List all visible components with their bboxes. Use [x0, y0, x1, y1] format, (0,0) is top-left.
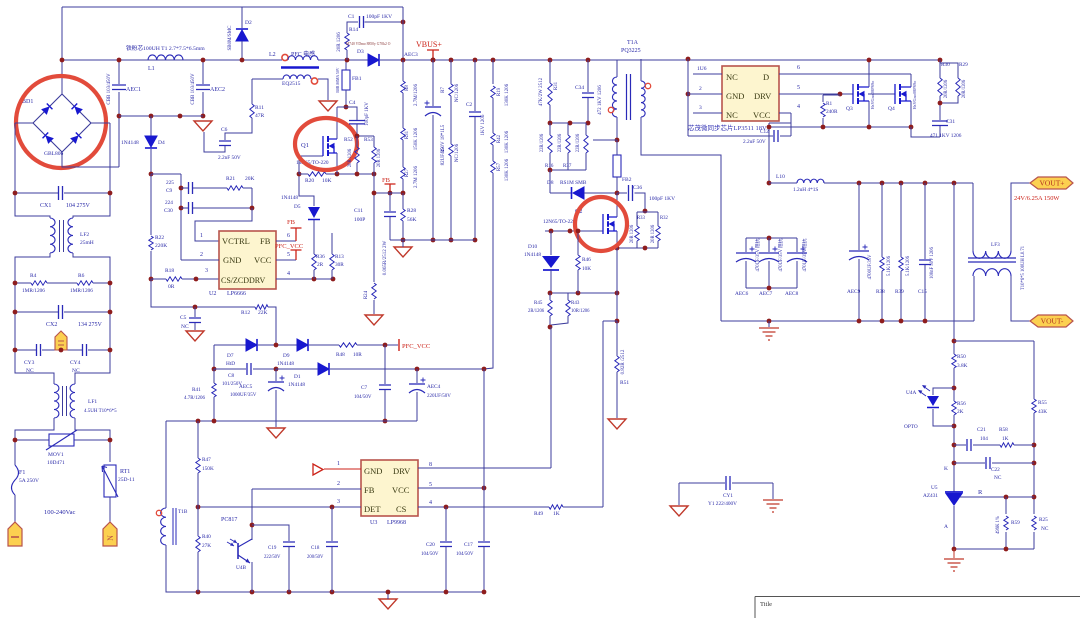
junction	[1032, 461, 1037, 466]
wire	[657, 241, 659, 243]
wire	[402, 221, 404, 240]
svg-text:20R 1206: 20R 1206	[337, 32, 342, 52]
junction	[923, 319, 928, 324]
capacitor C9	[189, 182, 193, 194]
junction	[482, 367, 487, 372]
svg-text:FB: FB	[287, 219, 296, 226]
resistor R13	[330, 254, 334, 270]
wire	[373, 174, 375, 282]
junction	[13, 438, 18, 443]
svg-text:LF3: LF3	[991, 242, 1000, 248]
svg-text:R42: R42	[497, 134, 502, 143]
junction	[383, 419, 388, 424]
svg-text:C21: C21	[977, 427, 986, 433]
wire	[1011, 183, 1030, 251]
diode D2	[236, 30, 248, 41]
capacitor C8	[247, 363, 251, 375]
junction	[372, 172, 377, 177]
svg-text:3.8K: 3.8K	[957, 363, 968, 369]
junction	[117, 58, 122, 63]
resistor R51	[615, 356, 619, 372]
svg-text:130K 1206: 130K 1206	[505, 83, 510, 106]
wire	[616, 374, 618, 418]
junction	[576, 291, 581, 296]
wire	[549, 60, 551, 75]
wire	[585, 156, 587, 170]
wire	[616, 321, 618, 352]
svg-text:2: 2	[699, 86, 702, 92]
svg-text:R55: R55	[1038, 400, 1047, 406]
varistor MOV1	[49, 434, 74, 446]
wire	[584, 192, 617, 194]
svg-text:1KV 1206: 1KV 1206	[481, 114, 486, 135]
svg-text:R13: R13	[335, 254, 344, 260]
svg-text:1MR/1206: 1MR/1206	[22, 288, 45, 294]
wire	[550, 269, 552, 293]
wire	[202, 60, 204, 84]
svg-text:C4: C4	[349, 100, 356, 106]
inductor LF3 core	[968, 258, 1016, 262]
wire	[550, 231, 552, 255]
junction	[909, 125, 914, 130]
wire	[275, 390, 277, 427]
wire	[550, 327, 552, 468]
junction	[383, 343, 388, 348]
wire output ground row	[721, 320, 974, 322]
svg-text:2.7M/1206: 2.7M/1206	[414, 83, 419, 106]
wire	[309, 344, 339, 346]
wire	[288, 547, 290, 592]
wire	[563, 506, 603, 508]
capacitor CY4	[83, 344, 87, 356]
svg-text:499K 1%: 499K 1%	[996, 516, 1001, 534]
junction	[386, 590, 391, 595]
wire	[197, 552, 199, 554]
wire gate Q2	[545, 230, 603, 232]
junction	[549, 229, 554, 234]
junction	[431, 238, 436, 243]
svg-text:2: 2	[337, 481, 340, 487]
svg-text:LF1: LF1	[88, 399, 97, 405]
wire	[252, 525, 289, 541]
svg-text:470UF/35V 阻抗: 470UF/35V 阻抗	[801, 238, 808, 271]
svg-text:R43: R43	[571, 301, 580, 306]
svg-text:R53: R53	[364, 137, 373, 143]
svg-text:104: 104	[980, 436, 988, 442]
wire	[61, 7, 63, 94]
svg-text:25D-11: 25D-11	[118, 477, 135, 483]
wire	[550, 292, 617, 294]
junction	[345, 58, 350, 63]
svg-text:R45: R45	[534, 301, 543, 306]
junction	[331, 277, 336, 282]
svg-text:22R/1206: 22R/1206	[540, 133, 545, 152]
capacitor CX1	[59, 186, 63, 200]
wire	[299, 174, 314, 206]
svg-text:VOUT-: VOUT-	[1041, 317, 1064, 326]
wire	[416, 392, 418, 421]
svg-text:R58: R58	[999, 427, 1008, 433]
capacitor C34	[582, 93, 594, 98]
svg-text:104/50V: 104/50V	[354, 395, 372, 400]
svg-text:R24: R24	[364, 290, 369, 299]
wire	[953, 415, 955, 417]
junction	[444, 590, 449, 595]
wire	[973, 276, 975, 321]
svg-text:C2: C2	[466, 102, 473, 108]
svg-text:1N4148: 1N4148	[121, 140, 139, 146]
wire source Q4	[910, 101, 912, 127]
svg-text:Q1: Q1	[301, 142, 309, 149]
wire primary ground row	[166, 545, 484, 592]
junction	[548, 121, 553, 126]
svg-text:134 275V: 134 275V	[78, 322, 103, 328]
wire pin 6 U2	[276, 240, 296, 242]
svg-text:R14: R14	[349, 27, 358, 33]
svg-text:PFC 电感: PFC 电感	[291, 50, 315, 58]
junction	[13, 191, 18, 196]
junction	[952, 181, 957, 186]
wire left rail	[15, 123, 50, 218]
capacitor C20	[440, 542, 452, 547]
junction	[643, 209, 648, 214]
wire	[551, 318, 568, 325]
wire	[960, 496, 1034, 498]
svg-text:R30: R30	[941, 62, 950, 68]
svg-text:GND: GND	[223, 255, 241, 265]
svg-text:AEC2: AEC2	[210, 87, 225, 93]
wire	[593, 139, 617, 141]
svg-text:20R/1206: 20R/1206	[944, 79, 949, 98]
svg-text:R29: R29	[959, 62, 968, 68]
junction	[274, 367, 279, 372]
svg-text:R12: R12	[241, 310, 250, 316]
svg-text:PFC_VCC: PFC_VCC	[275, 243, 303, 250]
svg-text:10D471: 10D471	[47, 460, 65, 466]
junction	[330, 505, 335, 510]
ferrite bead FB2	[613, 155, 621, 177]
svg-text:200/50V: 200/50V	[307, 555, 324, 560]
wire	[492, 98, 494, 133]
capacitor AEC8	[787, 252, 807, 254]
junction	[548, 58, 553, 63]
svg-text:R47: R47	[202, 457, 211, 463]
junction	[473, 58, 478, 63]
wire	[567, 293, 569, 296]
wire	[679, 482, 725, 484]
wire	[939, 99, 941, 120]
wire	[204, 132, 225, 152]
svg-text:1: 1	[200, 233, 203, 239]
junction	[857, 181, 862, 186]
svg-text:C20: C20	[426, 542, 435, 548]
wire	[796, 261, 798, 288]
wire	[1005, 497, 1007, 514]
svg-text:2K: 2K	[957, 409, 964, 415]
svg-text:AEC6: AEC6	[735, 291, 749, 297]
op-amp U2 LP6666	[219, 231, 276, 289]
transformer T1A core	[627, 74, 631, 120]
svg-text:R31: R31	[405, 130, 410, 139]
wire	[939, 75, 941, 78]
svg-text:PFC_VCC: PFC_VCC	[402, 343, 430, 350]
svg-text:47K/2W 2512: 47K/2W 2512	[539, 77, 544, 106]
wire pin 2 U3	[252, 488, 361, 490]
svg-text:OPTO: OPTO	[904, 424, 918, 430]
svg-text:VCTRL: VCTRL	[222, 236, 250, 246]
resistor R55	[1032, 399, 1036, 413]
diode D1	[318, 363, 329, 375]
wire	[450, 96, 452, 144]
wire	[881, 271, 883, 275]
wire	[450, 156, 452, 240]
wire pin 4 U2	[276, 278, 333, 280]
capacitor C22	[986, 457, 990, 469]
wire	[251, 118, 253, 124]
title block	[755, 597, 1080, 619]
wire	[299, 173, 308, 175]
wire	[197, 473, 199, 477]
junction	[431, 58, 436, 63]
wire	[402, 193, 404, 209]
resistor R36	[312, 254, 316, 270]
wire	[768, 238, 770, 252]
svg-text:L10: L10	[776, 174, 785, 180]
wire	[373, 142, 375, 147]
resistor R29	[956, 78, 960, 96]
wire	[213, 399, 215, 421]
junction	[449, 58, 454, 63]
junction	[686, 92, 691, 97]
junction	[179, 206, 184, 211]
wire	[445, 507, 447, 541]
connector VOUT-	[1030, 315, 1073, 327]
svg-text:VCC: VCC	[753, 110, 771, 120]
svg-text:A: A	[944, 524, 948, 530]
junction	[201, 58, 206, 63]
wire top bypass	[62, 6, 403, 8]
svg-text:芯茂微同步芯片LP3511 18V: 芯茂微同步芯片LP3511 18V	[688, 123, 767, 132]
junction	[178, 114, 183, 119]
wire secondary top	[640, 59, 642, 81]
wire	[587, 60, 589, 92]
wire	[384, 345, 386, 384]
svg-text:SB0M/SMC: SB0M/SMC	[228, 25, 233, 51]
wire	[577, 270, 579, 272]
svg-text:R7: R7	[441, 87, 446, 93]
junction	[13, 310, 18, 315]
wire pin 1 U3	[324, 468, 361, 470]
wire	[823, 94, 840, 96]
wire	[62, 152, 119, 167]
capacitor AEC5	[268, 381, 284, 383]
svg-text:R21: R21	[226, 176, 235, 182]
wire	[313, 270, 315, 272]
junction	[615, 291, 620, 296]
svg-text:FB1: FB1	[352, 76, 362, 82]
svg-text:130K 1206: 130K 1206	[505, 158, 510, 181]
svg-text:47R: 47R	[255, 113, 265, 119]
svg-text:5A 250V: 5A 250V	[19, 478, 39, 484]
resistor R21	[227, 186, 243, 190]
wire	[313, 252, 315, 254]
wire mains rail	[62, 59, 282, 61]
junction	[250, 590, 255, 595]
wire	[182, 278, 219, 280]
capacitor C36	[629, 185, 633, 201]
svg-text:M740 VDmo 8850y G70k2 O: M740 VDmo 8850y G70k2 O	[346, 42, 391, 46]
wire	[933, 409, 954, 426]
highlight circle around Q2	[575, 197, 627, 251]
inductor L2	[288, 56, 318, 60]
svg-text:43K: 43K	[1038, 409, 1047, 415]
resistor R53	[372, 147, 376, 163]
wire	[150, 149, 152, 174]
wire	[402, 179, 404, 193]
junction	[548, 291, 553, 296]
diode D9	[297, 339, 308, 351]
junction	[312, 277, 317, 282]
capacitor C13 82UF/450V	[425, 106, 441, 108]
wire	[331, 547, 333, 592]
svg-text:C19: C19	[268, 546, 277, 551]
wire	[616, 372, 618, 374]
junction	[108, 438, 113, 443]
svg-text:T10*6*5 100UH L0.71: T10*6*5 100UH L0.71	[1021, 245, 1026, 290]
wire	[416, 369, 418, 383]
wire	[939, 60, 941, 75]
net flag PFC_VCC	[291, 250, 302, 260]
svg-text:AEC9: AEC9	[847, 289, 861, 295]
wire	[373, 136, 375, 142]
wire	[150, 116, 152, 136]
resistor R39	[899, 257, 903, 271]
svg-text:C36: C36	[633, 185, 642, 191]
transformer T1A primary	[612, 77, 617, 117]
wire	[972, 183, 974, 251]
wire	[940, 63, 958, 75]
wire gate Q1	[299, 156, 323, 174]
svg-text:1N4148: 1N4148	[281, 195, 298, 201]
wire	[346, 60, 347, 70]
wire	[939, 96, 941, 99]
diode D5	[308, 207, 320, 218]
junction	[13, 281, 18, 286]
resistor R40	[196, 536, 200, 552]
wire	[549, 170, 551, 193]
resistor R32	[656, 226, 660, 241]
wire	[389, 217, 391, 240]
resistor R8	[401, 81, 405, 93]
svg-text:R57: R57	[497, 162, 502, 171]
svg-text:R18: R18	[165, 268, 174, 274]
junction	[615, 191, 620, 196]
svg-text:C7: C7	[361, 385, 368, 391]
junction	[938, 101, 943, 106]
svg-text:D1: D1	[294, 374, 301, 380]
wire	[118, 60, 120, 84]
svg-text:铁粉芯100UH T1 2.7*7.5*6.5mm: 铁粉芯100UH T1 2.7*7.5*6.5mm	[126, 44, 205, 52]
junction	[473, 238, 478, 243]
ground earth	[763, 500, 783, 512]
junction	[1004, 547, 1009, 552]
wire	[957, 75, 959, 78]
svg-text:5: 5	[429, 482, 432, 488]
wire	[657, 224, 659, 226]
wire	[15, 311, 58, 313]
resistor R12	[255, 305, 268, 309]
junction	[250, 523, 255, 528]
opto emission arrows	[919, 386, 930, 396]
wire	[251, 538, 253, 540]
wire pin 5 DRV	[779, 93, 853, 95]
wire VCC rail	[330, 368, 484, 370]
wire	[194, 323, 196, 330]
wire	[225, 124, 252, 140]
svg-text:R22: R22	[155, 235, 164, 241]
wire	[549, 153, 551, 156]
junction	[196, 590, 201, 595]
svg-text:1N4148: 1N4148	[524, 252, 541, 258]
wire	[567, 123, 569, 128]
highlight circle around Q1	[295, 118, 357, 170]
svg-text:150K 1206: 150K 1206	[414, 127, 419, 150]
svg-text:2.2nF 50V: 2.2nF 50V	[218, 155, 241, 161]
resistor R45	[548, 300, 552, 316]
wire	[585, 128, 587, 135]
ground	[319, 101, 337, 111]
wire	[549, 318, 551, 327]
wire	[251, 489, 253, 538]
svg-text:LP6666: LP6666	[227, 291, 246, 297]
wire	[275, 369, 277, 381]
wire	[252, 78, 283, 80]
wire	[166, 420, 417, 422]
svg-text:R36: R36	[316, 254, 325, 260]
svg-text:Q4: Q4	[888, 106, 895, 112]
wire	[688, 135, 773, 137]
junction	[149, 114, 154, 119]
svg-text:AEC7: AEC7	[759, 291, 773, 297]
wire drain Q2	[616, 193, 618, 217]
wire	[1033, 413, 1035, 418]
wire	[953, 352, 955, 354]
svg-text:4.5UH T10*6*5: 4.5UH T10*6*5	[84, 409, 117, 414]
wire	[585, 123, 587, 128]
svg-text:CBB 103/450V: CBB 103/450V	[191, 73, 196, 105]
svg-text:N: N	[106, 535, 115, 541]
svg-text:2R: 2R	[317, 262, 324, 268]
wire	[356, 163, 358, 168]
svg-text:R33: R33	[637, 216, 645, 221]
junction	[355, 134, 360, 139]
wire	[953, 506, 955, 549]
wire	[483, 369, 485, 541]
svg-text:NC/1206: NC/1206	[455, 143, 460, 162]
svg-text:30R: 30R	[335, 262, 344, 268]
wire	[197, 455, 199, 458]
svg-text:L2: L2	[269, 52, 276, 58]
transistor Q1	[323, 136, 337, 156]
svg-text:GND: GND	[726, 91, 744, 101]
wire	[678, 483, 680, 505]
svg-text:R46: R46	[582, 257, 591, 263]
wire	[345, 90, 347, 107]
resistor R35	[548, 135, 552, 153]
svg-text:4.7R/1206: 4.7R/1206	[184, 396, 205, 401]
wire	[549, 293, 551, 296]
junction	[952, 547, 957, 552]
